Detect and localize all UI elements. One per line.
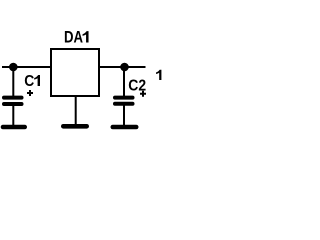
wire: C1 to ground <box>12 104 14 126</box>
polarity + of C1 <box>27 90 33 96</box>
node: output junction <box>120 63 129 72</box>
polarity + of C2 <box>140 91 146 97</box>
ground under DA1 <box>63 124 86 129</box>
wire: DA1 to ground <box>75 96 77 126</box>
svg-text:DA: DA <box>64 29 83 47</box>
label C1 <box>24 73 40 90</box>
wire: node to C2 <box>123 67 125 97</box>
capacitor C1 <box>4 98 22 104</box>
wire: input line to DA1 <box>2 66 52 68</box>
ground under C1 <box>3 125 25 130</box>
wire: C2 to ground <box>123 104 125 126</box>
label 1 output terminal <box>156 70 161 80</box>
wire: node to C1 <box>12 67 14 97</box>
label DA1 <box>64 29 89 47</box>
wire: output line from DA1 <box>98 66 146 68</box>
node: input junction <box>9 63 18 72</box>
svg-text:C: C <box>24 73 34 90</box>
ground under C2 <box>113 125 136 130</box>
capacitor C2 <box>115 98 133 104</box>
regulator DA1 box <box>51 49 99 96</box>
